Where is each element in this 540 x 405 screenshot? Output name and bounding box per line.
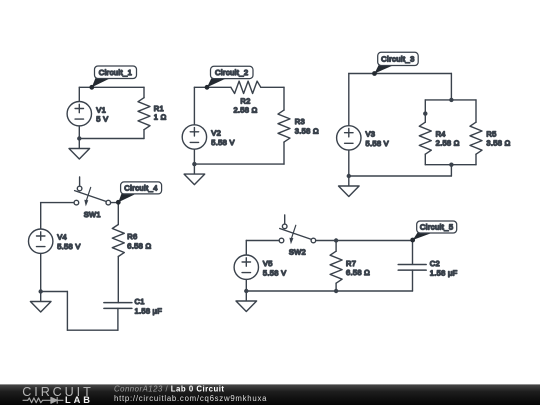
wire: V5 bottom stub xyxy=(245,279,247,291)
wire: Circuit 5 bottom net xyxy=(246,290,412,292)
svg-text:2.58 Ω: 2.58 Ω xyxy=(436,139,460,148)
logo schematic flourish: resistor and diode xyxy=(23,397,63,403)
svg-text:V1: V1 xyxy=(96,105,106,114)
svg-text:5 V: 5 V xyxy=(96,115,108,124)
junction dot at R7 bottom xyxy=(334,289,338,293)
wire: V2 bottom stub xyxy=(193,149,195,164)
junction dot at V2 bottom xyxy=(192,162,196,166)
wire: bottom return horizontal xyxy=(41,291,68,293)
wire: bottom return to C1 xyxy=(67,329,118,331)
svg-text:V2: V2 xyxy=(211,129,221,138)
resistor R4 xyxy=(419,122,431,154)
footer bar xyxy=(0,384,540,405)
svg-text:SW1: SW1 xyxy=(84,210,101,219)
wire: bottom return vertical xyxy=(66,292,68,331)
svg-text:3.58 Ω: 3.58 Ω xyxy=(295,126,319,135)
callout Circuit_2 xyxy=(207,78,227,88)
voltage source V4 xyxy=(29,229,53,253)
svg-text:C2: C2 xyxy=(430,259,440,268)
voltage source V3 xyxy=(337,126,361,150)
svg-text:SW2: SW2 xyxy=(289,248,306,257)
wire: Circuit 2 top-right segment xyxy=(261,86,284,88)
wire: R7 top stub xyxy=(335,241,337,252)
junction dot at V4 bottom xyxy=(39,289,43,293)
wire: V4 top stub xyxy=(40,203,42,229)
svg-text:6.58 Ω: 6.58 Ω xyxy=(346,268,370,277)
callout Circuit_1 xyxy=(92,78,111,88)
wire: R4 bottom stub xyxy=(424,154,426,165)
wire: V3 top stub xyxy=(348,74,350,126)
wire: Circuit 3 top net xyxy=(349,73,452,75)
wire: Circuit 1 top net xyxy=(79,86,144,88)
resistor R6 xyxy=(112,225,124,257)
svg-text:R2: R2 xyxy=(240,96,250,105)
wire: V5 top stub xyxy=(245,241,247,256)
wire: Circuit 2 bottom net xyxy=(194,163,284,165)
svg-text:1.58 μF: 1.58 μF xyxy=(135,307,163,316)
wire: Circuit 3 bottom net xyxy=(349,175,452,177)
wire: C2 top stub xyxy=(412,241,414,265)
wire: V5 to switch SW2 xyxy=(246,240,279,242)
wire: R3 top stub xyxy=(283,87,285,110)
wire: C1 bottom stub xyxy=(117,308,119,330)
voltage source V5 xyxy=(234,255,258,279)
callout Circuit_3 xyxy=(375,65,394,74)
wire: parallel top splitter xyxy=(425,99,476,101)
svg-text:LAB: LAB xyxy=(65,395,93,405)
junction dot at V1 bottom xyxy=(77,136,81,140)
wire: Circuit 1 bottom net xyxy=(79,138,144,140)
junction dot top splitter xyxy=(449,98,453,102)
capacitor C1 xyxy=(104,302,132,304)
svg-text:Circuit_4: Circuit_4 xyxy=(124,184,158,193)
wire: parallel bottom splitter xyxy=(425,164,476,166)
resistor R7 xyxy=(330,251,342,283)
svg-text:6.58 Ω: 6.58 Ω xyxy=(127,241,151,250)
wire: SW1 to node xyxy=(111,202,119,204)
wire: Circuit 2 top-left segment xyxy=(194,86,231,88)
ground: Circuit 5 xyxy=(245,291,247,301)
node dot on R4 branch xyxy=(423,111,427,115)
voltage source V2 xyxy=(182,125,206,149)
svg-text:5.58 V: 5.58 V xyxy=(211,138,234,147)
ground: Circuit 4 xyxy=(40,292,42,302)
ground: Circuit 2 xyxy=(193,164,195,174)
svg-text:5.58 V: 5.58 V xyxy=(263,268,286,277)
svg-text:V5: V5 xyxy=(263,259,273,268)
svg-text:ConnorA123 / Lab 0 Circuit: ConnorA123 / Lab 0 Circuit xyxy=(114,385,225,394)
junction dot at V3 bottom xyxy=(347,174,351,178)
wire: R7 bottom stub xyxy=(335,283,337,291)
svg-text:R4: R4 xyxy=(436,129,446,138)
svg-text:R5: R5 xyxy=(486,129,496,138)
wire: R6 top stub xyxy=(117,203,119,225)
callout Circuit_4 xyxy=(118,193,136,202)
svg-text:1.58 μF: 1.58 μF xyxy=(430,268,458,277)
ground: Circuit 3 xyxy=(348,176,350,186)
junction dot at V5 bottom xyxy=(244,289,248,293)
wire: R1 top stub xyxy=(143,87,145,97)
junction dot at R7 top xyxy=(334,238,338,242)
wire: R5 top stub xyxy=(475,100,477,122)
resistor R3 xyxy=(278,110,290,142)
wire: V3 bottom stub xyxy=(348,150,350,176)
wire: right branch vertical xyxy=(450,74,452,100)
svg-text:V3: V3 xyxy=(366,130,376,139)
svg-text:C1: C1 xyxy=(135,297,145,306)
svg-text:5.58 V: 5.58 V xyxy=(366,139,389,148)
svg-text:2.58 Ω: 2.58 Ω xyxy=(233,106,257,115)
wire: V1 top stub xyxy=(78,87,80,101)
wire: V4 bottom stub xyxy=(40,253,42,291)
svg-text:Circuit_5: Circuit_5 xyxy=(420,223,454,232)
wire: R3 bottom stub xyxy=(283,142,285,164)
svg-text:Circuit_2: Circuit_2 xyxy=(215,68,249,77)
resistor R5 xyxy=(470,122,482,154)
wire: R5 bottom stub xyxy=(475,154,477,165)
wire: R1 bottom stub xyxy=(143,130,145,139)
junction dot bottom splitter xyxy=(449,163,453,167)
wire: R4 top stub xyxy=(424,100,426,122)
svg-text:Circuit_3: Circuit_3 xyxy=(381,55,415,64)
wire: R6 to C1 xyxy=(117,257,119,303)
svg-text:Circuit_1: Circuit_1 xyxy=(99,68,133,77)
svg-text:5.58 V: 5.58 V xyxy=(57,242,80,251)
ground: Circuit 1 xyxy=(78,139,80,149)
wire: V2 top stub xyxy=(193,87,195,125)
resistor R2 xyxy=(231,81,261,93)
capacitor C2 xyxy=(398,263,426,265)
wire: V4 to switch SW1 xyxy=(41,202,74,204)
svg-text:R1: R1 xyxy=(154,104,164,113)
svg-text:R3: R3 xyxy=(295,117,305,126)
svg-text:R7: R7 xyxy=(346,259,356,268)
switch SW1 xyxy=(79,177,81,186)
wire: SW2 to C2 branch xyxy=(316,240,413,242)
resistor R1 xyxy=(138,98,150,130)
voltage source V1 xyxy=(67,102,91,126)
wire: C2 bottom stub xyxy=(412,270,414,291)
wire: V1 bottom stub xyxy=(78,126,80,139)
svg-text:http://circuitlab.com/cq6szw9m: http://circuitlab.com/cq6szw9mkhuxa xyxy=(114,394,267,403)
svg-text:V4: V4 xyxy=(57,233,67,242)
svg-text:R6: R6 xyxy=(127,232,137,241)
wire: parallel to bottom net xyxy=(450,165,452,176)
svg-text:1 Ω: 1 Ω xyxy=(154,113,167,122)
callout Circuit_5 xyxy=(413,232,433,240)
switch SW2 xyxy=(284,215,286,224)
svg-text:3.58 Ω: 3.58 Ω xyxy=(486,139,510,148)
